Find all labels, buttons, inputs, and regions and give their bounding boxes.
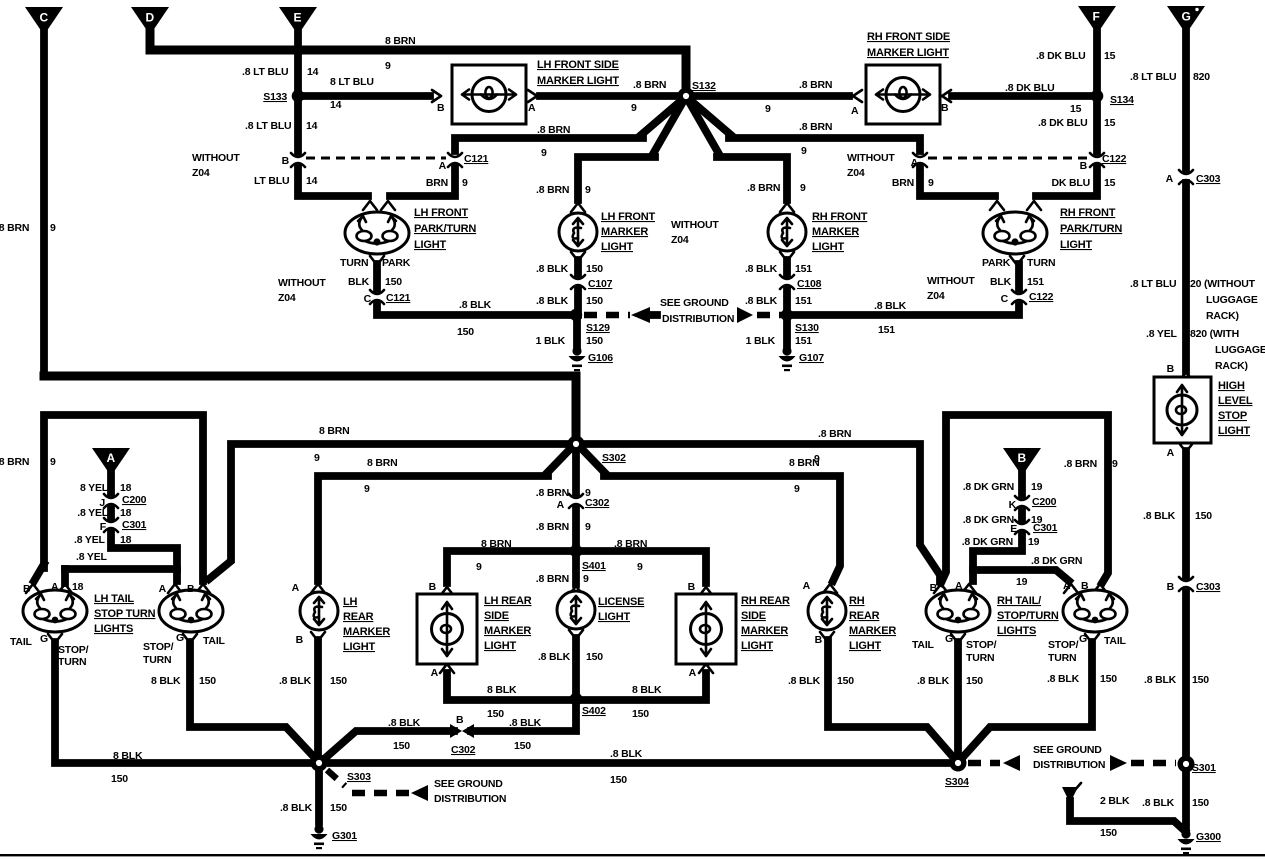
svg-text:C200: C200 [1032,496,1057,508]
svg-text:LIGHTS: LIGHTS [997,625,1036,637]
svg-text:SEE GROUND: SEE GROUND [434,778,503,790]
svg-text:STOP/: STOP/ [1048,639,1079,651]
svg-text:RH FRONT: RH FRONT [1060,207,1116,219]
svg-text:MARKER: MARKER [849,625,896,637]
wire .8 BRN circuit 9 from S132 to C121 pin A [455,99,683,159]
svg-text:.8 LT BLU: .8 LT BLU [1130,71,1176,83]
svg-text:WITHOUT: WITHOUT [927,275,975,287]
svg-text:.8 BRN: .8 BRN [537,124,570,136]
ground G107 [779,346,825,371]
svg-text:A: A [528,102,536,114]
svg-text:150: 150 [1195,510,1212,522]
splice S301 [1178,756,1216,774]
wire .8 BRN 9 from C302 to S401 [536,509,591,548]
svg-text:.8 BRN: .8 BRN [1064,458,1097,470]
svg-text:A: A [107,451,116,465]
svg-text:.8 BRN: .8 BRN [799,121,832,133]
svg-text:9: 9 [800,182,806,194]
svg-text:20 (WITHOUT: 20 (WITHOUT [1190,278,1256,290]
lamp RH front park/turn light [982,207,1122,269]
svg-text:SIDE: SIDE [484,610,509,622]
svg-text:9: 9 [541,147,547,159]
svg-text:.8 BRN: .8 BRN [614,538,647,550]
svg-text:G: G [1182,10,1191,24]
bottom frame line [0,854,1265,856]
svg-text:LIGHT: LIGHT [414,239,446,251]
svg-text:.8 BLK: .8 BLK [459,299,492,311]
svg-text:WITHOUT: WITHOUT [847,152,895,164]
svg-text:.8 BLK: .8 BLK [536,263,569,275]
wire .8 YEL 18 from C301 to LH tail stop/turn pins [65,533,177,583]
wire .8 LT BLU circuit 14 E line down to S133 [242,33,319,96]
wire .8 DK GRN 19 from B to C200 [963,468,1043,495]
in-line connector C303 lower pin B [1167,577,1221,593]
connector triangle E [279,7,317,35]
in-line connector C200 pin K [1009,496,1057,511]
lamp LH tail stop/turn lights (inner) [94,583,223,635]
svg-text:.8 BLK: .8 BLK [1143,510,1176,522]
svg-text:C121: C121 [386,292,411,304]
svg-text:A: A [803,580,811,592]
svg-text:150: 150 [385,276,402,288]
svg-text:S134: S134 [1110,94,1134,106]
svg-text:HIGH: HIGH [1218,380,1245,392]
svg-text:15: 15 [1104,117,1116,129]
svg-text:9: 9 [637,561,643,573]
svg-text:9: 9 [765,103,771,115]
in-line connector C107 [571,275,613,290]
svg-text:A: A [439,160,447,172]
wire 8 BLK 150 LH outer tail ground to S303 bus [48,634,951,786]
svg-text:TURN: TURN [966,652,994,664]
svg-text:.8 BLK: .8 BLK [610,748,643,760]
svg-text:.8 YEL: .8 YEL [76,551,107,563]
svg-text:RH FRONT SIDE: RH FRONT SIDE [867,31,950,43]
svg-text:.8 BLK: .8 BLK [745,263,778,275]
splice S132 [678,80,716,104]
label STOP TURN / G / TAIL for RH outer lamp [1048,633,1127,664]
svg-text:B: B [1081,580,1089,592]
svg-text:BLK: BLK [348,276,370,288]
svg-text:19: 19 [1016,576,1028,588]
in-line connector C302 pin A [557,494,610,511]
wire .8 BRN 9 bridge bus to RH tail lamp B pins [941,415,1118,583]
svg-text:.8 BLK: .8 BLK [745,295,778,307]
wire 8 BRN 9 from S302 to RH rear marker light [580,447,840,581]
wire 8 BLK 150 LH inner tail ground to S303 [151,634,314,757]
svg-text:LUGGAGE: LUGGAGE [1206,294,1258,306]
lamp LH tail stop/turn lights (outer) [23,581,87,632]
wire 8 BRN 9 from S401 to RH rear side marker pin B [580,538,706,583]
wire 8 BLK 150 from S402 to RH rear side marker pin A [580,664,713,720]
wire .8 BLK 150 RH rear marker to S304 [788,632,953,757]
lamp LH rear side marker light [417,581,532,679]
svg-text:8 LT BLU: 8 LT BLU [330,76,374,88]
lamp RH tail stop/turn lights (outer) [1063,580,1127,632]
splice S129 node overlay [570,309,582,321]
lamp license light [557,586,644,629]
svg-text:S133: S133 [263,91,287,103]
svg-text:E: E [1010,523,1017,535]
svg-text:S301: S301 [1192,762,1216,774]
svg-text:.8 BLK: .8 BLK [788,675,821,687]
dashed ground distribution lead from S304 [968,744,1105,771]
splice S302 [568,436,626,464]
svg-text:.8 BLK: .8 BLK [536,295,569,307]
svg-text:.8 YEL: .8 YEL [74,534,105,546]
svg-text:B: B [429,581,437,593]
splice S133 [263,90,304,103]
wire .8 BRN circuit 9 from S132 to C122 pin A [689,99,920,157]
svg-text:19: 19 [1028,536,1040,548]
svg-text:.8 BLK: .8 BLK [874,300,907,312]
svg-text:LICENSE: LICENSE [598,596,644,608]
svg-text:150: 150 [586,335,603,347]
wire .8 BLK 150 LH front marker to C107 [536,252,603,275]
svg-text:C: C [364,293,372,305]
svg-text:S303: S303 [347,771,371,783]
svg-text:.8 BLK: .8 BLK [538,651,571,663]
wire .8 BLK 151 RH front marker to C108 [745,252,812,275]
connector triangle F [1078,6,1116,34]
svg-text:A: A [1063,580,1071,592]
lamp LH rear marker light [292,582,391,653]
svg-text:18: 18 [72,581,84,593]
splice S304 node overlay [950,755,967,772]
svg-text:PARK/TURN: PARK/TURN [414,223,476,235]
svg-text:.8 DK GRN: .8 DK GRN [963,514,1014,526]
lamp LH front park/turn light [340,207,476,269]
svg-text:MARKER: MARKER [601,226,648,238]
wire BRN 9 from C122 to RH park/turn lamp left pin [892,168,1004,210]
svg-text:S302: S302 [602,452,626,464]
svg-text:Z04: Z04 [671,234,689,246]
svg-text:150: 150 [586,263,603,275]
svg-text:REAR: REAR [343,611,374,623]
svg-text:C200: C200 [122,494,147,506]
label G / TAIL / STOP TURN for RH inner lamp [912,633,997,664]
svg-text:LH REAR: LH REAR [484,595,532,607]
svg-text:B: B [282,155,290,167]
splice S402 node overlay [570,693,583,706]
wire .8 BRN from S132 to RH front side marker pin A [690,79,862,117]
svg-text:LIGHT: LIGHT [1218,425,1250,437]
svg-text:.8 BRN: .8 BRN [536,521,569,533]
svg-text:WITHOUT: WITHOUT [192,152,240,164]
svg-text:B: B [187,583,195,595]
svg-text:.8 BLK: .8 BLK [279,675,312,687]
svg-text:LIGHT: LIGHT [484,640,516,652]
splice S303 [311,755,371,783]
svg-text:.8 BRN: .8 BRN [0,222,29,234]
svg-text:15: 15 [1104,177,1116,189]
splice S134 [1091,90,1134,106]
svg-text:A: A [851,105,859,117]
wire .8 DK GRN 19 from C301 to RH tail stop/turn pins [962,535,1083,588]
svg-text:150: 150 [514,740,531,752]
wire .8 YEL 18 from C200 to C301 [77,507,131,519]
svg-text:150: 150 [586,651,603,663]
svg-text:9: 9 [385,60,391,72]
svg-text:S129: S129 [586,322,610,334]
lamp LH front side marker light [452,59,619,124]
svg-text:.8 DK GRN: .8 DK GRN [962,536,1013,548]
svg-text:LIGHT: LIGHT [343,641,375,653]
svg-text:REAR: REAR [849,610,880,622]
in-line connector C121 (dashed) pins B and A [192,152,489,179]
wire 8 YEL 18 from A to C200 [80,468,132,494]
svg-text:MARKER LIGHT: MARKER LIGHT [867,47,949,59]
svg-text:14: 14 [330,99,342,111]
wire .8 LT BLU circuit 820 G line down to C303 [1130,32,1210,169]
connector triangle B [1003,448,1041,476]
svg-text:820 (WITH: 820 (WITH [1190,328,1239,340]
svg-text:150: 150 [393,740,410,752]
svg-text:B: B [437,102,445,114]
svg-text:G107: G107 [799,352,824,364]
svg-text:.8 BLK: .8 BLK [1047,673,1080,685]
wire 1 BLK 150 from S129 to G106 [536,315,604,347]
svg-text:S132: S132 [692,80,716,92]
in-line connector C122 pin C [1001,290,1054,305]
splice S303 node overlay [311,755,328,772]
svg-text:.8 BRN: .8 BRN [633,79,666,91]
svg-text:BRN: BRN [426,177,448,189]
svg-text:TURN: TURN [58,656,86,668]
svg-text:BLK: BLK [990,276,1012,288]
svg-text:151: 151 [1027,276,1044,288]
svg-text:D: D [146,11,155,25]
svg-text:C303: C303 [1196,173,1221,185]
svg-text:WITHOUT: WITHOUT [278,277,326,289]
svg-text:.8 DK GRN: .8 DK GRN [1031,555,1082,567]
label G / TAIL / STOP TURN for LH inner lamp [143,632,226,666]
svg-text:LH TAIL: LH TAIL [94,593,134,605]
svg-text:1 BLK: 1 BLK [746,335,776,347]
svg-text:8 BRN: 8 BRN [481,538,512,550]
svg-text:B: B [941,102,949,114]
svg-text:9: 9 [476,561,482,573]
wire .8 BRN 9 from S401 to license light [536,555,589,585]
in-line connector C303 upper pin A [1166,170,1221,185]
svg-text:RH FRONT: RH FRONT [812,211,868,223]
svg-text:.8 DK BLU: .8 DK BLU [1005,82,1055,94]
svg-text:A: A [557,499,565,511]
svg-text:STOP/: STOP/ [143,641,174,653]
lamp high level stop light [1154,372,1253,443]
wire .8 BLK 150 RH outer tail ground to S304 [963,634,1117,757]
wire DK BLU 15 from C122 to RH park/turn lamp right pin [1027,168,1116,210]
ground G300 [1178,829,1222,854]
svg-text:A: A [1166,173,1174,185]
svg-text:9: 9 [631,102,637,114]
svg-text:8 BLK: 8 BLK [151,675,181,687]
svg-text:C: C [1001,293,1009,305]
svg-text:8 BLK: 8 BLK [487,684,517,696]
wire 2 BLK 150 branch into G300 [1062,783,1185,839]
wire .8 BLK 150 RH inner tail ground to S304 [917,634,983,757]
svg-text:150: 150 [199,675,216,687]
svg-text:8 BRN: 8 BRN [789,457,820,469]
svg-text:151: 151 [795,263,812,275]
svg-text:150: 150 [1192,797,1209,809]
dashed ground distribution lead to S301 [1110,755,1176,771]
svg-text:18: 18 [120,482,132,494]
svg-text:SEE GROUND: SEE GROUND [1033,744,1102,756]
svg-text:2 BLK: 2 BLK [1100,795,1130,807]
svg-text:G106: G106 [588,352,613,364]
svg-text:.8 LT BLU: .8 LT BLU [242,66,288,78]
svg-text:.8 BLK: .8 BLK [1142,797,1175,809]
svg-text:A: A [1167,447,1175,459]
svg-text:LH FRONT SIDE: LH FRONT SIDE [537,59,619,71]
svg-text:9: 9 [50,222,56,234]
svg-text:9: 9 [583,573,589,585]
svg-text:Z04: Z04 [278,292,296,304]
svg-text:14: 14 [306,120,318,132]
lamp RH rear side marker light [676,581,790,679]
svg-text:15: 15 [1104,50,1116,62]
svg-text:150: 150 [632,708,649,720]
svg-text:18: 18 [120,534,132,546]
svg-text:SIDE: SIDE [741,610,766,622]
connector triangle A [92,448,130,476]
wire .8 DK BLU circuit 15 F line down to S134 [1036,32,1116,96]
svg-text:B: B [456,714,464,726]
lamp RH tail stop/turn lights (inner) [926,580,1059,637]
wire .8 BLK 150 license light to S402 [538,630,603,696]
svg-text:A: A [431,667,439,679]
svg-text:S130: S130 [795,322,819,334]
svg-text:RACK): RACK) [1206,310,1239,322]
svg-text:LH: LH [343,596,358,608]
svg-text:9: 9 [314,452,320,464]
svg-text:14: 14 [307,66,319,78]
svg-text:Z04: Z04 [847,167,865,179]
svg-text:C122: C122 [1029,291,1054,303]
dashed ground distribution lead from S129 [584,297,734,325]
svg-text:G: G [40,633,48,645]
ground G106 [569,346,614,371]
wire 1 BLK 151 from S130 to G107 [746,315,813,347]
svg-text:9: 9 [1112,458,1118,470]
svg-text:MARKER: MARKER [343,626,390,638]
svg-text:TAIL: TAIL [203,635,226,647]
svg-text:PARK: PARK [982,257,1011,269]
svg-text:PARK/TURN: PARK/TURN [1060,223,1122,235]
svg-text:150: 150 [1100,673,1117,685]
svg-text:TAIL: TAIL [10,636,33,648]
dashed ground distribution lead from S303 [327,770,506,805]
svg-text:151: 151 [795,335,812,347]
svg-text:B: B [23,583,31,595]
svg-text:8 BRN: 8 BRN [319,425,350,437]
svg-text:TAIL: TAIL [912,639,935,651]
svg-text:RH REAR: RH REAR [741,595,790,607]
svg-text:.8 BRN: .8 BRN [747,182,780,194]
svg-text:LIGHT: LIGHT [812,241,844,253]
svg-text:LH FRONT: LH FRONT [601,211,655,223]
svg-text:.8 BLK: .8 BLK [1144,674,1177,686]
svg-text:B: B [688,581,696,593]
svg-text:LT BLU: LT BLU [254,175,289,187]
splice S301 node overlay [1178,756,1195,773]
svg-text:C301: C301 [122,519,147,531]
svg-text:C: C [40,11,49,25]
svg-text:MARKER: MARKER [484,625,531,637]
svg-text:RACK): RACK) [1215,360,1248,372]
wire BRN 9 from C121 to LH park/turn lamp right pin [381,168,468,210]
svg-text:9: 9 [928,177,934,189]
connector triangle G [1167,6,1205,34]
splice S130 node overlay [781,309,793,321]
wire .8 BLK 151 from C122 to S130 [791,300,1019,336]
svg-text:SEE GROUND: SEE GROUND [660,297,729,309]
svg-text:DISTRIBUTION: DISTRIBUTION [1033,759,1105,771]
svg-text:150: 150 [330,802,347,814]
svg-text:STOP: STOP [1218,410,1247,422]
svg-text:DISTRIBUTION: DISTRIBUTION [662,313,734,325]
label TAIL / G / STOP TURN for LH outer lamp [10,633,89,668]
svg-text:A: A [689,667,697,679]
wire 8 BRN main bus from C line to S302 [44,376,576,440]
svg-text:LIGHT: LIGHT [741,640,773,652]
splice S401 node overlay [570,545,583,558]
svg-text:9: 9 [801,145,807,157]
wire .8 BRN circuit 9 from C connector down to main brown bus [0,33,56,372]
svg-text:15: 15 [1070,103,1082,115]
svg-text:LIGHT: LIGHT [849,640,881,652]
wire .8 DK BLU circuit 15 from pin B to S134 [942,82,1097,115]
svg-text:150: 150 [586,295,603,307]
svg-text:9: 9 [585,521,591,533]
dashed ground distribution lead to S130 [737,307,783,323]
svg-text:B: B [815,634,823,646]
svg-text:.8 DK BLU: .8 DK BLU [1036,50,1086,62]
svg-text:150: 150 [111,773,128,785]
wire .8 LT BLU circuit 14 E line from S133 to C121 [245,100,318,152]
splice S402 [570,693,606,717]
svg-text:K: K [1009,499,1017,511]
wire 8 BRN 9 from LH tail lamp B pin up to S302 [209,425,572,579]
svg-text:.8 YEL: .8 YEL [1146,328,1177,340]
svg-text:LEVEL: LEVEL [1218,395,1253,407]
svg-text:.8 DK GRN: .8 DK GRN [963,481,1014,493]
svg-text:150: 150 [487,708,504,720]
svg-text:LH FRONT: LH FRONT [414,207,468,219]
wire .8 BLK 150 from stop light pin A to C303 [1143,443,1212,576]
lamp LH front marker light [559,203,719,253]
lamp RH rear marker light [803,580,897,652]
svg-text:STOP/: STOP/ [58,644,89,656]
wire .8 BLK 150 from S402 through C302 to S303 [323,703,576,760]
wire .8 BRN 9 from S302 down to C302 [536,452,591,499]
svg-text:B: B [296,634,304,646]
in-line connector C200 pin J [99,494,146,509]
svg-text:150: 150 [837,675,854,687]
svg-text:Z04: Z04 [192,167,210,179]
svg-text:C302: C302 [451,744,476,756]
wire .8 BRN circuit 9 from marker light pin A to S132 [528,79,686,114]
svg-text:.8 BRN: .8 BRN [799,79,832,91]
svg-text:9: 9 [794,483,800,495]
svg-text:14: 14 [306,175,318,187]
svg-text:LIGHT: LIGHT [601,241,633,253]
splice S304 [945,755,969,788]
svg-text:150: 150 [457,326,474,338]
splice S129 [570,309,610,334]
lamp RH front marker light [768,203,868,253]
